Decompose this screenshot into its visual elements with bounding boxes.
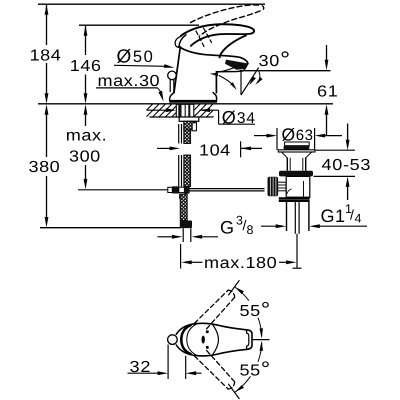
svg-text:8: 8 [247, 223, 254, 237]
svg-text:104: 104 [199, 143, 231, 160]
svg-text:32: 32 [130, 359, 152, 376]
svg-text:Ø63: Ø63 [282, 124, 314, 144]
svg-text:max.180: max.180 [204, 255, 277, 272]
svg-text:40-53: 40-53 [322, 157, 372, 174]
svg-text:184: 184 [30, 48, 62, 65]
svg-text:max.: max. [66, 128, 107, 145]
svg-text:300: 300 [69, 149, 101, 166]
svg-text:Ø50: Ø50 [117, 47, 155, 68]
svg-text:4: 4 [355, 212, 362, 226]
svg-text:Ø34: Ø34 [222, 107, 256, 127]
svg-text:380: 380 [29, 159, 61, 176]
svg-text:G: G [220, 217, 235, 237]
svg-text:/: / [350, 207, 354, 223]
svg-text:61: 61 [317, 84, 338, 101]
svg-text:G1: G1 [321, 206, 346, 226]
